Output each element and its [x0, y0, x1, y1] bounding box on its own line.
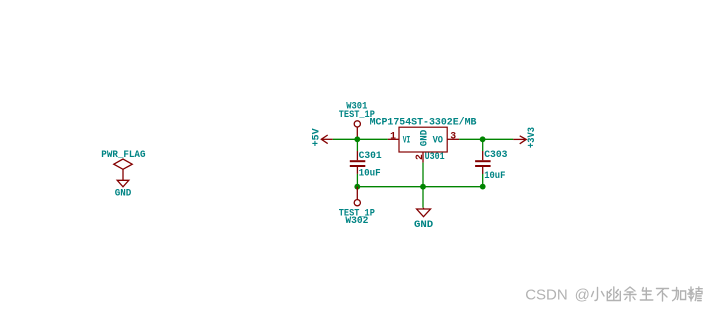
pin number 1	[390, 130, 396, 141]
svg-text:W302: W302	[345, 215, 368, 226]
svg-text:10uF: 10uF	[484, 170, 505, 181]
wire C301 upper stub	[356, 139, 358, 151]
junction at W301/C301 tap	[354, 136, 360, 142]
label W301	[346, 101, 367, 112]
wire pin2 to ground	[422, 163, 424, 208]
label GND (middle)	[414, 219, 433, 230]
power flag PWR_FLAG symbol	[114, 159, 132, 180]
label 10uF (C301)	[359, 168, 381, 179]
ground GND (middle)	[417, 208, 431, 217]
pin name GND (rotated)	[419, 130, 431, 146]
capacitor C303	[475, 151, 491, 174]
svg-text:1: 1	[390, 130, 396, 141]
svg-text:GND: GND	[414, 219, 433, 230]
wire main right (pin 3 to +3V3)	[459, 138, 513, 140]
wire C301 lower stub	[356, 174, 358, 187]
pin name VO	[433, 134, 444, 145]
ground GND (left)	[117, 180, 129, 187]
svg-text:CSDN: CSDN	[525, 287, 568, 304]
svg-text:PWR_FLAG: PWR_FLAG	[101, 149, 145, 160]
svg-text:U301: U301	[425, 151, 445, 162]
junction bottom right	[480, 184, 486, 190]
pin 1 of U301	[388, 138, 399, 140]
watermark CSDN	[525, 287, 590, 304]
svg-text:C301: C301	[359, 150, 382, 161]
wire main left (+5V to pin 1)	[333, 138, 388, 140]
svg-text:GND: GND	[115, 187, 132, 198]
test point W302	[354, 187, 360, 206]
svg-text:MCP1754ST-3302E/MB: MCP1754ST-3302E/MB	[370, 116, 477, 127]
pin 2 of U301	[422, 152, 424, 163]
svg-text:C303: C303	[484, 149, 507, 160]
svg-text:2: 2	[414, 154, 425, 160]
svg-text:GND: GND	[419, 130, 431, 146]
label C303	[484, 149, 507, 160]
capacitor C301	[350, 151, 366, 174]
svg-text:10uF: 10uF	[359, 168, 381, 179]
regulator U301 body	[399, 127, 447, 152]
svg-text:+5V: +5V	[311, 128, 323, 147]
test point W301	[354, 121, 360, 140]
pin number 3	[450, 130, 456, 141]
label +5V	[311, 128, 323, 147]
wire C303 upper stub	[482, 139, 484, 151]
pin name VI	[403, 134, 411, 145]
reference U301	[425, 151, 445, 162]
label W302	[345, 215, 368, 226]
svg-text:@: @	[575, 287, 590, 304]
label TEST_1P (bottom)	[339, 208, 375, 219]
wire bottom rail	[357, 186, 482, 188]
power +5V	[321, 135, 333, 144]
junction at C303 tap (top)	[480, 136, 486, 142]
label +3V3	[526, 127, 538, 148]
svg-text:VI: VI	[403, 134, 411, 145]
pin number 2 (rotated)	[414, 154, 425, 160]
label PWR_FLAG	[101, 149, 145, 160]
svg-text:VO: VO	[433, 134, 444, 145]
label GND (left)	[115, 187, 132, 198]
svg-text:+3V3: +3V3	[526, 127, 538, 148]
pin 3 of U301	[447, 138, 459, 140]
watermark CJK glyphs	[592, 287, 703, 301]
label 10uF (C303)	[484, 170, 505, 181]
junction bottom middle	[420, 184, 426, 190]
wire C303 lower stub	[482, 174, 484, 187]
label value MCP1754ST-3302E/MB	[370, 116, 477, 127]
junction bottom left	[354, 184, 360, 190]
label C301	[359, 150, 382, 161]
power +3V3	[513, 136, 526, 144]
svg-text:3: 3	[450, 130, 456, 141]
label TEST_1P (top)	[339, 109, 375, 120]
